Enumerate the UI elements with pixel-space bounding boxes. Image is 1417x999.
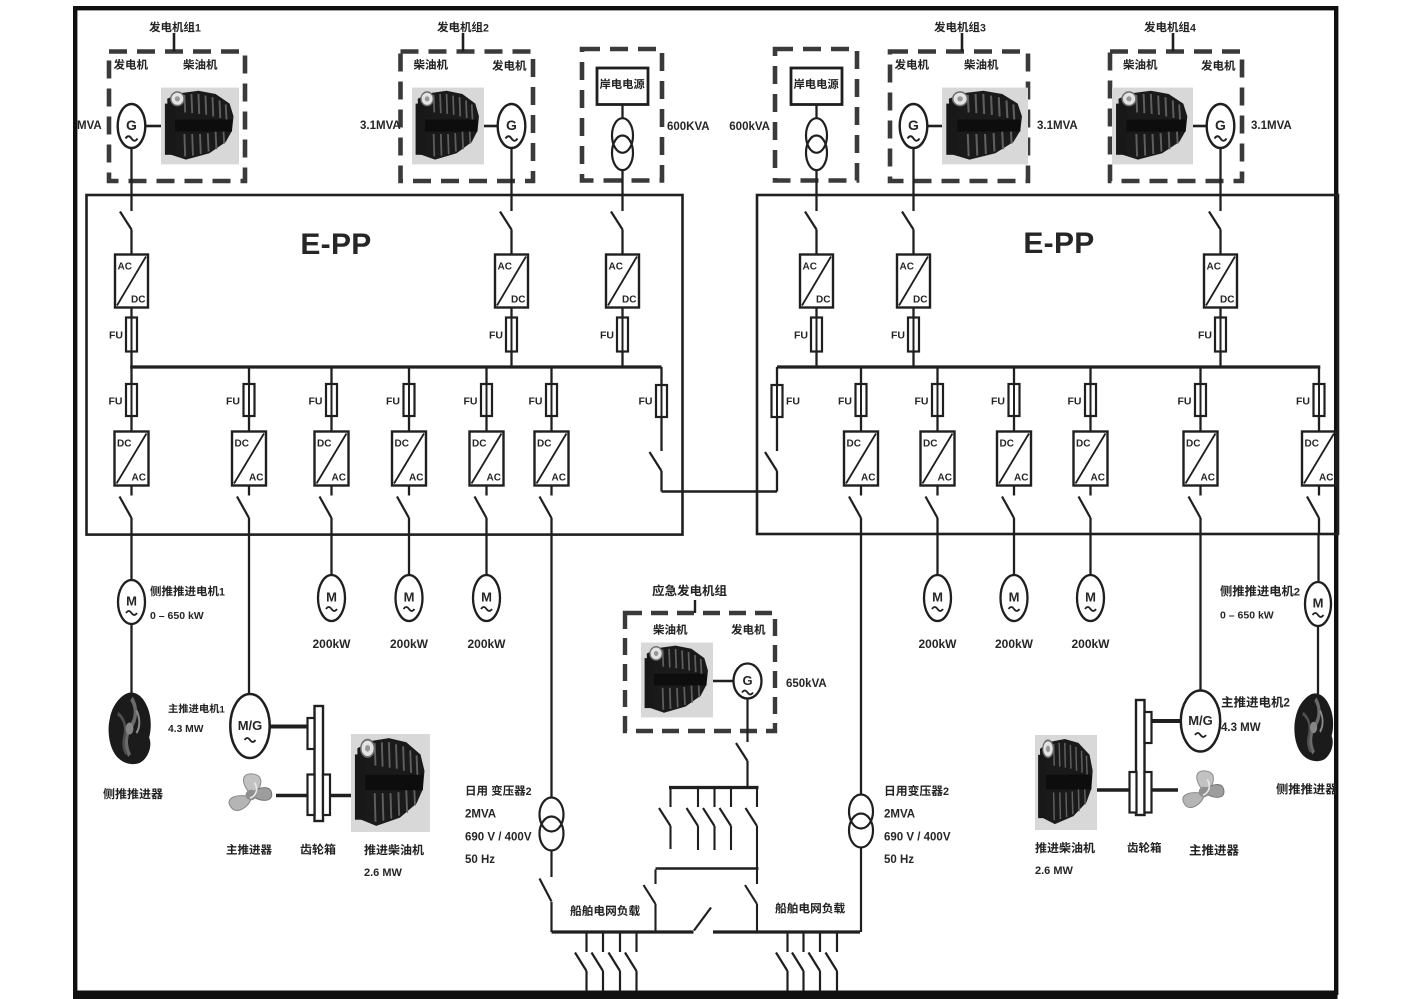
svg-text:600KVA: 600KVA bbox=[667, 121, 710, 133]
svg-text:DC: DC bbox=[1000, 439, 1014, 450]
svg-text:E-PP: E-PP bbox=[300, 228, 371, 261]
svg-text:FU: FU bbox=[464, 396, 478, 408]
svg-text:G: G bbox=[506, 117, 517, 133]
svg-text:MVA: MVA bbox=[77, 120, 102, 132]
svg-text:AC: AC bbox=[249, 473, 263, 484]
svg-text:DC: DC bbox=[1305, 439, 1319, 450]
svg-text:200kW: 200kW bbox=[995, 637, 1034, 651]
svg-text:M: M bbox=[404, 590, 415, 605]
svg-text:DC: DC bbox=[131, 295, 145, 306]
svg-text:FU: FU bbox=[838, 396, 852, 408]
svg-text:M: M bbox=[932, 590, 943, 605]
svg-text:DC: DC bbox=[1220, 295, 1234, 306]
svg-text:600kVA: 600kVA bbox=[729, 121, 770, 133]
svg-text:DC: DC bbox=[923, 439, 937, 450]
svg-text:1: 1 bbox=[220, 704, 225, 715]
svg-text:DC: DC bbox=[511, 295, 525, 306]
svg-text:2: 2 bbox=[1294, 586, 1300, 598]
svg-text:FU: FU bbox=[639, 396, 653, 408]
svg-text:FU: FU bbox=[891, 330, 905, 342]
svg-text:50 Hz: 50 Hz bbox=[884, 854, 914, 866]
svg-text:G: G bbox=[126, 117, 137, 133]
svg-text:G: G bbox=[908, 117, 919, 133]
svg-text:AC: AC bbox=[1091, 473, 1105, 484]
svg-text:4.3 MW: 4.3 MW bbox=[168, 724, 204, 735]
svg-text:2: 2 bbox=[526, 786, 532, 798]
svg-text:2: 2 bbox=[483, 22, 489, 34]
svg-text:M: M bbox=[326, 590, 337, 605]
svg-text:AC: AC bbox=[118, 262, 132, 273]
svg-text:2: 2 bbox=[943, 786, 949, 798]
svg-text:FU: FU bbox=[1068, 396, 1082, 408]
svg-text:1: 1 bbox=[219, 586, 225, 598]
svg-text:DC: DC bbox=[472, 439, 486, 450]
svg-text:AC: AC bbox=[409, 473, 423, 484]
svg-text:200kW: 200kW bbox=[390, 637, 429, 651]
svg-text:2: 2 bbox=[1284, 698, 1290, 710]
svg-text:3: 3 bbox=[980, 22, 986, 34]
svg-text:FU: FU bbox=[386, 396, 400, 408]
svg-text:M: M bbox=[1085, 590, 1096, 605]
svg-text:FU: FU bbox=[109, 330, 123, 342]
svg-text:AC: AC bbox=[938, 473, 952, 484]
svg-text:AC: AC bbox=[332, 473, 346, 484]
svg-text:DC: DC bbox=[1076, 439, 1090, 450]
svg-text:M: M bbox=[1313, 596, 1324, 611]
svg-text:650kVA: 650kVA bbox=[786, 678, 827, 690]
svg-text:DC: DC bbox=[395, 439, 409, 450]
svg-text:FU: FU bbox=[309, 396, 323, 408]
svg-text:690 V / 400V: 690 V / 400V bbox=[884, 832, 951, 844]
svg-text:FU: FU bbox=[489, 330, 503, 342]
svg-text:FU: FU bbox=[226, 396, 240, 408]
svg-text:0 – 650 kW: 0 – 650 kW bbox=[150, 610, 204, 622]
svg-text:AC: AC bbox=[498, 262, 512, 273]
svg-text:M: M bbox=[1009, 590, 1020, 605]
svg-text:200kW: 200kW bbox=[467, 637, 506, 651]
svg-text:4.3 MW: 4.3 MW bbox=[1221, 722, 1261, 734]
svg-text:200kW: 200kW bbox=[1071, 637, 1110, 651]
svg-text:DC: DC bbox=[622, 295, 636, 306]
svg-text:2.6 MW: 2.6 MW bbox=[364, 867, 403, 879]
svg-text:AC: AC bbox=[552, 473, 566, 484]
svg-text:200kW: 200kW bbox=[918, 637, 957, 651]
svg-text:DC: DC bbox=[816, 295, 830, 306]
svg-text:2MVA: 2MVA bbox=[884, 809, 915, 821]
svg-text:4: 4 bbox=[1190, 22, 1196, 34]
svg-text:AC: AC bbox=[132, 473, 146, 484]
svg-text:FU: FU bbox=[915, 396, 929, 408]
svg-text:FU: FU bbox=[109, 396, 123, 408]
svg-text:FU: FU bbox=[600, 330, 614, 342]
svg-text:DC: DC bbox=[537, 439, 551, 450]
svg-text:3.1MVA: 3.1MVA bbox=[1251, 120, 1292, 132]
svg-text:FU: FU bbox=[529, 396, 543, 408]
svg-text:200kW: 200kW bbox=[312, 637, 351, 651]
svg-text:AC: AC bbox=[1201, 473, 1215, 484]
svg-text:DC: DC bbox=[235, 439, 249, 450]
svg-text:AC: AC bbox=[487, 473, 501, 484]
svg-text:2MVA: 2MVA bbox=[465, 809, 496, 821]
svg-text:AC: AC bbox=[609, 262, 623, 273]
svg-text:0 – 650 kW: 0 – 650 kW bbox=[1220, 610, 1274, 622]
svg-text:DC: DC bbox=[847, 439, 861, 450]
svg-text:M: M bbox=[481, 590, 492, 605]
svg-text:DC: DC bbox=[117, 439, 131, 450]
svg-text:AC: AC bbox=[803, 262, 817, 273]
svg-text:AC: AC bbox=[1207, 262, 1221, 273]
svg-text:FU: FU bbox=[991, 396, 1005, 408]
svg-text:M/G: M/G bbox=[238, 718, 263, 733]
svg-text:FU: FU bbox=[1198, 330, 1212, 342]
svg-text:M/G: M/G bbox=[1188, 713, 1213, 728]
svg-text:E-PP: E-PP bbox=[1023, 227, 1094, 260]
svg-text:3.1MVA: 3.1MVA bbox=[360, 120, 401, 132]
svg-text:FU: FU bbox=[794, 330, 808, 342]
svg-text:2.6 MW: 2.6 MW bbox=[1035, 865, 1074, 877]
svg-text:1: 1 bbox=[195, 22, 201, 34]
svg-text:690 V / 400V: 690 V / 400V bbox=[465, 832, 532, 844]
svg-text:DC: DC bbox=[1186, 439, 1200, 450]
svg-text:DC: DC bbox=[317, 439, 331, 450]
svg-text:3.1MVA: 3.1MVA bbox=[1037, 120, 1078, 132]
svg-text:AC: AC bbox=[861, 473, 875, 484]
svg-text:AC: AC bbox=[900, 262, 914, 273]
svg-text:FU: FU bbox=[786, 396, 800, 408]
svg-text:DC: DC bbox=[913, 295, 927, 306]
svg-text:FU: FU bbox=[1178, 396, 1192, 408]
svg-text:M: M bbox=[126, 594, 137, 609]
svg-text:AC: AC bbox=[1319, 473, 1333, 484]
svg-text:AC: AC bbox=[1014, 473, 1028, 484]
svg-text:G: G bbox=[742, 673, 752, 688]
svg-text:G: G bbox=[1215, 117, 1226, 133]
svg-text:FU: FU bbox=[1296, 396, 1310, 408]
svg-text:50 Hz: 50 Hz bbox=[465, 854, 495, 866]
